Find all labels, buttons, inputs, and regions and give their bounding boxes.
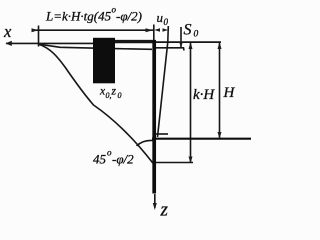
svg-text:x: x xyxy=(3,22,12,41)
svg-text:S: S xyxy=(184,22,192,39)
svg-text:z: z xyxy=(111,86,117,98)
svg-text:-φ/2: -φ/2 xyxy=(112,152,134,167)
svg-text:0: 0 xyxy=(194,30,199,40)
svg-text:u: u xyxy=(157,10,164,25)
svg-text:-φ/2): -φ/2) xyxy=(116,9,142,24)
svg-text:z: z xyxy=(160,200,169,221)
svg-text:45: 45 xyxy=(93,152,107,167)
svg-text:H: H xyxy=(223,85,236,101)
svg-text:0: 0 xyxy=(118,91,122,100)
svg-text:0: 0 xyxy=(164,17,169,27)
svg-text:k·H: k·H xyxy=(193,87,215,103)
svg-text:L=k·H·tg(45: L=k·H·tg(45 xyxy=(45,9,112,24)
